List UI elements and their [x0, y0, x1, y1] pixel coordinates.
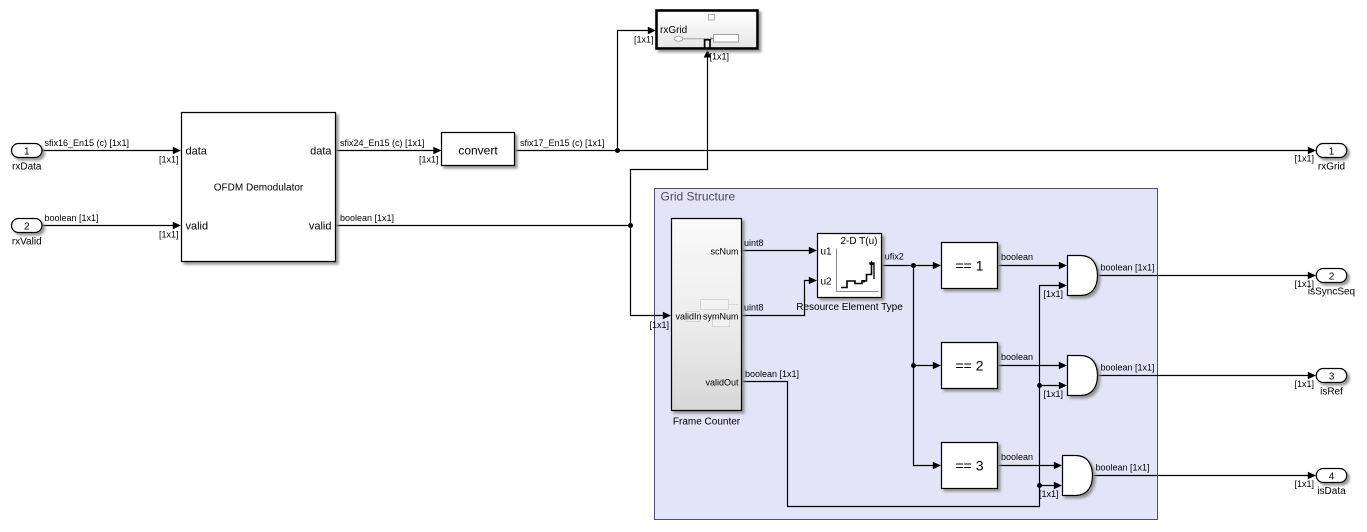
- svg-text:rxValid: rxValid: [12, 236, 42, 247]
- svg-text:boolean [1x1]: boolean [1x1]: [745, 369, 799, 379]
- svg-text:rxGrid: rxGrid: [1318, 161, 1345, 172]
- svg-text:convert: convert: [458, 144, 498, 158]
- svg-text:boolean [1x1]: boolean [1x1]: [1096, 463, 1150, 473]
- svg-text:== 1: == 1: [955, 258, 983, 274]
- svg-text:rxGrid: rxGrid: [660, 25, 687, 36]
- svg-text:isSyncSeq: isSyncSeq: [1308, 287, 1355, 298]
- svg-text:sfix16_En15 (c) [1x1]: sfix16_En15 (c) [1x1]: [45, 138, 130, 148]
- svg-text:valid: valid: [309, 220, 332, 232]
- svg-text:ufix2: ufix2: [885, 252, 904, 262]
- svg-text:[1x1]: [1x1]: [159, 155, 179, 165]
- svg-text:Grid Structure: Grid Structure: [661, 190, 736, 204]
- svg-text:sfix17_En15 (c) [1x1]: sfix17_En15 (c) [1x1]: [520, 138, 605, 148]
- svg-text:3: 3: [1329, 371, 1335, 382]
- svg-text:[1x1]: [1x1]: [1294, 379, 1314, 389]
- svg-text:[1x1]: [1x1]: [159, 230, 179, 240]
- svg-text:Resource Element Type: Resource Element Type: [796, 302, 903, 313]
- svg-text:[1x1]: [1x1]: [1294, 479, 1314, 489]
- svg-text:boolean: boolean: [1001, 352, 1033, 362]
- svg-text:OFDM Demodulator: OFDM Demodulator: [214, 183, 304, 194]
- svg-text:[1x1]: [1x1]: [634, 35, 654, 45]
- svg-text:boolean [1x1]: boolean [1x1]: [1101, 263, 1155, 273]
- svg-text:boolean [1x1]: boolean [1x1]: [1101, 363, 1155, 373]
- svg-text:boolean: boolean: [1001, 452, 1033, 462]
- svg-text:boolean [1x1]: boolean [1x1]: [45, 213, 99, 223]
- svg-text:== 3: == 3: [955, 458, 983, 474]
- svg-text:boolean: boolean: [1001, 252, 1033, 262]
- svg-text:== 2: == 2: [955, 358, 983, 374]
- svg-text:[1x1]: [1x1]: [419, 155, 439, 165]
- svg-text:1: 1: [24, 146, 30, 157]
- svg-text:2-D T(u): 2-D T(u): [840, 236, 877, 247]
- svg-text:1: 1: [1329, 146, 1335, 157]
- svg-text:valid: valid: [186, 220, 209, 232]
- svg-text:uint8: uint8: [744, 238, 764, 248]
- svg-text:2: 2: [1329, 271, 1335, 282]
- svg-text:[1x1]: [1x1]: [649, 320, 669, 330]
- svg-text:boolean [1x1]: boolean [1x1]: [340, 213, 394, 223]
- svg-text:sfix24_En15 (c) [1x1]: sfix24_En15 (c) [1x1]: [340, 138, 425, 148]
- svg-text:validIn: validIn: [676, 311, 702, 321]
- svg-text:isData: isData: [1317, 486, 1346, 497]
- svg-text:Frame Counter: Frame Counter: [673, 416, 741, 427]
- svg-text:[1x1]: [1x1]: [1043, 389, 1063, 399]
- svg-text:symNum: symNum: [703, 311, 739, 321]
- svg-text:rxData: rxData: [12, 161, 42, 172]
- svg-text:4: 4: [1329, 471, 1335, 482]
- svg-text:u1: u1: [821, 246, 833, 257]
- svg-text:[1x1]: [1x1]: [1294, 154, 1314, 164]
- svg-text:[1x1]: [1x1]: [710, 52, 730, 62]
- svg-text:[1x1]: [1x1]: [1039, 489, 1059, 499]
- svg-text:[1x1]: [1x1]: [1043, 289, 1063, 299]
- svg-text:data: data: [186, 145, 208, 157]
- svg-text:uint8: uint8: [744, 302, 764, 312]
- svg-text:2: 2: [24, 221, 30, 232]
- svg-text:isRef: isRef: [1320, 387, 1343, 398]
- svg-text:u2: u2: [821, 276, 833, 287]
- svg-text:validOut: validOut: [705, 377, 739, 387]
- svg-text:scNum: scNum: [710, 246, 738, 256]
- svg-text:data: data: [310, 145, 332, 157]
